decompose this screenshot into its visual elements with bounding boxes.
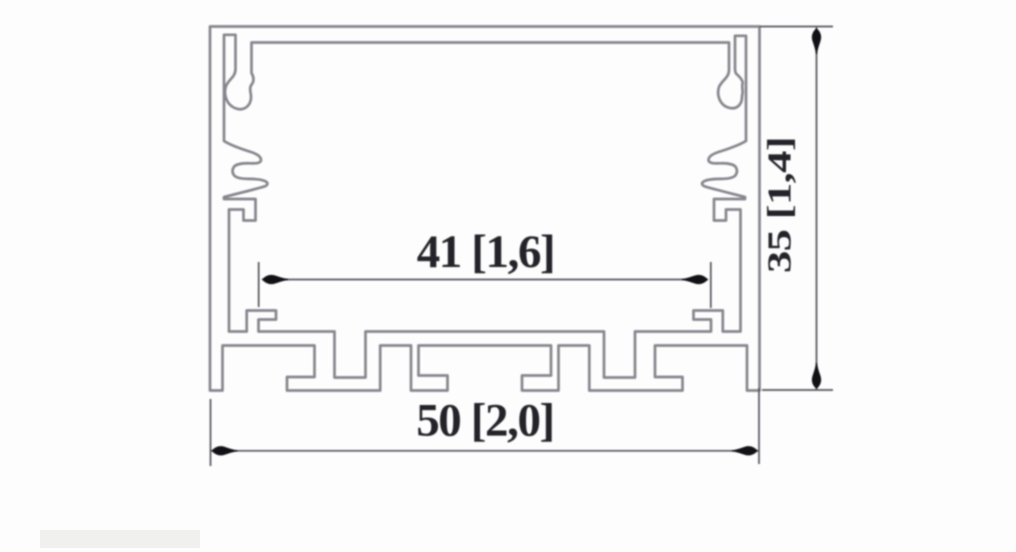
svg-text:35 [1,4]: 35 [1,4]: [761, 137, 798, 273]
svg-text:50 [2,0]: 50 [2,0]: [416, 395, 554, 447]
svg-text:41 [1,6]: 41 [1,6]: [417, 226, 555, 278]
